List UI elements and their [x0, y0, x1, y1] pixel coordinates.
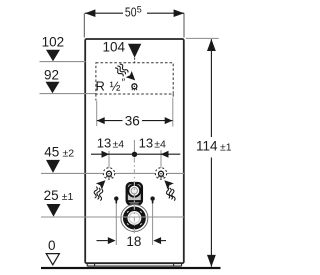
flush pipe clamp: [127, 183, 142, 205]
level line 25 overlay across drain: [118, 216, 151, 218]
svg-text:92: 92: [44, 68, 59, 83]
svg-text:25: 25: [44, 188, 59, 203]
tap glyph in box: [132, 84, 137, 91]
dimension 50(5) top: [84, 4, 184, 37]
squiggle arrow to left connection: [93, 180, 105, 201]
drain outlet circles: [121, 205, 148, 232]
level line 45: [41, 172, 184, 174]
floor line: [41, 267, 221, 269]
base plate and feet: [87, 264, 181, 266]
level line 102: [40, 61, 86, 63]
svg-text:″: ″: [122, 77, 126, 88]
anchor bolt right: [150, 196, 154, 245]
svg-text:102: 102: [42, 35, 65, 50]
dimension 13+-4 pair: [91, 136, 180, 170]
svg-text:±1: ±1: [220, 142, 232, 154]
dimension 36: [97, 98, 173, 129]
water connection right (dashed circle): [155, 168, 166, 179]
svg-text:½: ½: [110, 79, 121, 94]
svg-text:±2: ±2: [63, 148, 75, 160]
svg-text:5: 5: [137, 4, 142, 14]
svg-text:114: 114: [196, 139, 218, 154]
svg-text:36: 36: [125, 113, 140, 128]
svg-text:18: 18: [126, 234, 141, 249]
dimension 18: [97, 234, 167, 249]
svg-text:R: R: [96, 79, 105, 94]
dashed inlet zone box: [96, 63, 173, 94]
level line 92: [40, 93, 97, 95]
svg-text:104: 104: [103, 39, 126, 54]
water squiggle arrow in box: [114, 63, 135, 80]
dimension 114 right: [186, 38, 232, 267]
level line 25: [41, 216, 184, 218]
svg-text:45: 45: [44, 145, 59, 160]
svg-text:0: 0: [48, 238, 56, 253]
water connection left (dashed circle): [103, 168, 114, 179]
svg-text:50: 50: [125, 5, 137, 19]
anchor bolt left: [114, 196, 118, 245]
squiggle arrow to right connection: [164, 180, 175, 201]
svg-text:±4: ±4: [113, 139, 125, 151]
svg-text:13: 13: [97, 136, 111, 151]
dashed stubs below box: [95, 94, 97, 101]
svg-text:13: 13: [139, 136, 153, 151]
svg-text:±4: ±4: [154, 139, 166, 151]
module outline: [85, 39, 184, 263]
svg-text:±1: ±1: [62, 191, 74, 203]
centerline vertical: [133, 158, 135, 234]
